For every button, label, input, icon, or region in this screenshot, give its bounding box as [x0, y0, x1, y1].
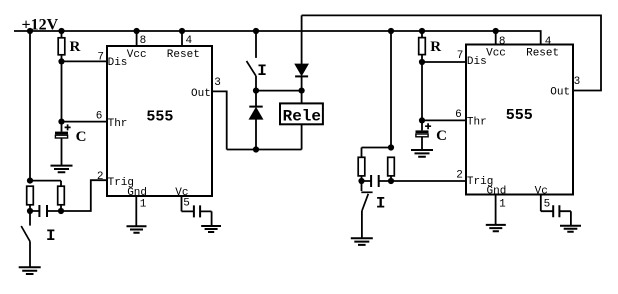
wire network1 top horizontal	[30, 181, 61, 187]
relay K1	[280, 91, 323, 150]
node network2 bottom right	[388, 178, 394, 184]
ground pin5 IC2	[560, 226, 581, 232]
wire pin8 IC2	[495, 31, 497, 45]
svg-text:I: I	[376, 194, 386, 212]
node rail junction pin4 IC1	[179, 28, 185, 34]
node rail junction right network	[388, 28, 394, 34]
wire pin6 IC1	[62, 121, 108, 123]
wire R3 bottom	[29, 205, 31, 211]
wire network1 to pin2 IC1	[61, 180, 107, 211]
node bottom wire junction D1	[253, 146, 259, 152]
wire pin1 IC2 to ground	[495, 195, 497, 225]
wire R5 bottom	[361, 176, 363, 181]
diode D2 (down, from top loop to relay)	[295, 15, 308, 90]
svg-text:5: 5	[544, 198, 551, 210]
svg-text:7: 7	[97, 52, 104, 64]
wire pin8 IC1	[136, 31, 138, 46]
svg-text:C: C	[76, 129, 87, 145]
node left network top junction	[27, 178, 33, 184]
resistor R5 (network2 left)	[358, 157, 365, 176]
wire mid horizontal S2/D2 to relay branch	[256, 90, 302, 92]
svg-text:7: 7	[457, 50, 464, 62]
wire R6 bottom	[390, 176, 392, 181]
resistor R2	[419, 31, 426, 62]
svg-text:5: 5	[183, 198, 190, 210]
svg-text:4: 4	[545, 36, 552, 48]
svg-text:Reset: Reset	[526, 48, 559, 60]
resistor R1	[58, 31, 65, 61]
svg-text:Reset: Reset	[167, 49, 200, 61]
svg-text:I: I	[257, 62, 267, 80]
svg-text:6: 6	[455, 109, 462, 121]
op-amp U2 555 timer box	[466, 45, 573, 195]
svg-text:2: 2	[456, 170, 463, 182]
capacitor C4 (trigger network2)	[362, 175, 392, 187]
node relay branch junction	[299, 88, 305, 94]
node rail junction switch S2	[253, 28, 259, 34]
switch S3 (I)	[361, 181, 372, 238]
resistor R6 (network2 right)	[388, 157, 395, 176]
label + polarity C1	[65, 124, 71, 130]
node rail junction R1 top	[58, 28, 64, 34]
svg-text:2: 2	[97, 171, 104, 183]
wire right column from rail down	[390, 31, 392, 148]
switch S2 (I) middle	[247, 31, 257, 91]
svg-text:Vcc: Vcc	[486, 48, 506, 60]
ground pin1 IC2	[486, 225, 506, 231]
wire network2 to pin2 IC2	[391, 180, 466, 182]
switch S1 (I)	[21, 211, 30, 267]
wire pin3 IC1 out to bottom wire	[212, 91, 227, 149]
wire left column from rail down	[29, 31, 31, 181]
svg-text:I: I	[46, 227, 56, 245]
node rail junction pin8 IC2	[493, 28, 499, 34]
svg-text:Rele: Rele	[283, 107, 321, 125]
diode D1 (up, across output)	[249, 91, 262, 150]
capacitor C5 on pin5 IC1	[182, 196, 212, 226]
svg-text:3: 3	[214, 77, 221, 89]
wire R4 bottom	[60, 205, 62, 211]
ground S3	[351, 238, 373, 245]
ground C2	[411, 150, 433, 157]
resistor R3 (network1 left)	[27, 186, 34, 205]
node pin6 junction C2 top	[419, 117, 425, 123]
svg-text:Out: Out	[191, 88, 211, 100]
svg-text:Thr: Thr	[108, 118, 128, 130]
wire pin6 IC2	[422, 119, 466, 121]
node R2 bottom / pin7 junction	[419, 59, 425, 65]
node network2 bottom left	[358, 178, 364, 184]
node pin6 junction C1 top	[58, 119, 64, 125]
label + polarity C2	[425, 123, 431, 129]
svg-text:8: 8	[140, 35, 147, 47]
node S2 bottom junction	[253, 88, 259, 94]
svg-text:555: 555	[146, 108, 173, 125]
wire pin7 IC2	[422, 61, 466, 63]
node rail junction left column	[27, 28, 33, 34]
wire R1 junction down to pin6 junction	[61, 61, 63, 121]
svg-text:C: C	[436, 128, 447, 144]
wire pin7 IC1	[62, 60, 108, 62]
node network1 bottom right	[58, 208, 64, 214]
svg-text:555: 555	[506, 107, 533, 124]
ground pin1 IC1	[127, 226, 147, 232]
svg-text:1: 1	[140, 199, 147, 211]
wire pin1 IC1 to ground	[135, 196, 137, 226]
wire top loop from relay branch to IC2 out	[302, 15, 601, 90]
svg-text:Dis: Dis	[108, 57, 128, 69]
wire network2 top horizontal	[362, 148, 392, 158]
svg-text:Dis: Dis	[467, 56, 487, 68]
ground pin5 IC1	[201, 226, 221, 232]
node network1 bottom left	[27, 208, 33, 214]
node right network top junction	[388, 144, 394, 150]
capacitor C3 (trigger network1)	[30, 205, 61, 217]
capacitor C1 (polarized)	[55, 122, 68, 166]
svg-text:8: 8	[499, 36, 506, 48]
node rail junction pin8 IC1	[134, 28, 140, 34]
svg-text:Thr: Thr	[467, 117, 487, 129]
wire bottom output to relay	[227, 149, 302, 151]
svg-text:4: 4	[186, 35, 193, 47]
ground C1	[51, 166, 73, 173]
svg-text:1: 1	[499, 199, 506, 211]
svg-text:R: R	[430, 39, 441, 55]
wire +12V supply rail	[14, 31, 541, 45]
node R1 bottom / pin7 junction	[58, 58, 64, 64]
wire R2 junction down to pin6 junction	[421, 62, 423, 120]
resistor R4 (network1 right)	[58, 186, 65, 205]
svg-text:Vcc: Vcc	[127, 49, 147, 61]
op-amp U1 555 timer box	[107, 46, 212, 196]
svg-text:6: 6	[96, 110, 103, 122]
capacitor C2 (polarized)	[416, 120, 429, 149]
ground S1	[19, 267, 41, 274]
svg-text:R: R	[70, 39, 81, 55]
svg-text:Out: Out	[550, 87, 570, 99]
svg-text:3: 3	[574, 76, 581, 88]
wire pin4 IC1	[181, 31, 183, 46]
node rail junction R2 top	[419, 28, 425, 34]
capacitor C6 on pin5 IC2	[541, 195, 571, 226]
